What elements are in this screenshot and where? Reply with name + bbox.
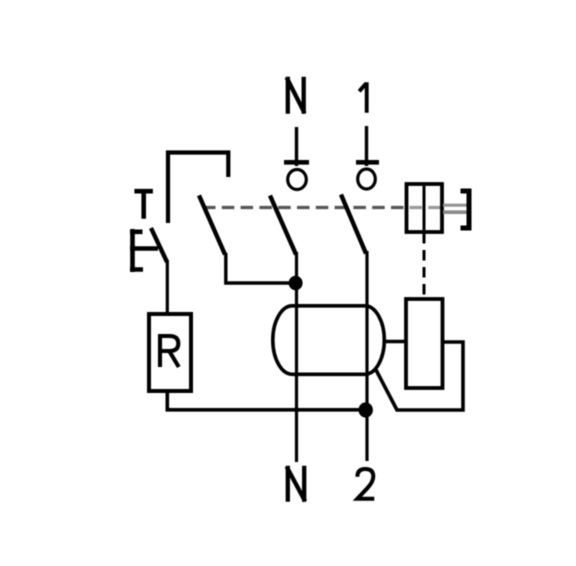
wire: test blade to resistor R <box>166 260 169 314</box>
manual handle <box>461 189 470 231</box>
wire: neutral conductor <box>295 252 298 462</box>
test switch blade <box>151 228 167 262</box>
fixed contact circle 1 <box>358 169 376 189</box>
terminal bar N <box>284 160 309 165</box>
label N (top neutral terminal) <box>287 77 305 114</box>
terminal bar 1 <box>356 160 379 165</box>
current transformer core (toroid) <box>273 306 385 375</box>
wire: secondary tap diagonal from core to bottom rail <box>375 368 398 411</box>
wire: test pole blade down and right to neutral conductor <box>226 253 296 283</box>
switch blade (line pole) <box>341 195 366 254</box>
dashed mechanical linkage line <box>203 206 406 209</box>
wire: lead from 1 label to terminal <box>365 126 368 166</box>
junction dot (line / bottom rail) <box>359 402 373 417</box>
label R <box>160 336 179 367</box>
label 1 (top line terminal) <box>359 82 367 112</box>
junction dot (neutral / test tap) <box>289 276 303 291</box>
fixed contact circle N <box>288 170 307 190</box>
trip coil <box>406 299 443 388</box>
dashed trip linkage to coil <box>423 233 426 296</box>
mechanical rod (double line) to handle <box>443 204 467 207</box>
wire: bracket from test contact up and over (fixed contact of test switch) <box>168 153 228 224</box>
label T (test button) <box>134 191 153 219</box>
wire: trip coil right side return <box>396 342 463 410</box>
resistor R <box>149 314 191 391</box>
test button actuator <box>130 229 158 272</box>
wire: line conductor <box>365 251 368 461</box>
wire: lead from N label to terminal <box>295 127 298 166</box>
mechanism box <box>407 184 443 232</box>
label 2 (bottom) <box>357 469 374 499</box>
label N (bottom) <box>287 466 306 502</box>
wire: resistor bottom to bottom rail <box>167 391 366 410</box>
mechanism box internal vertical line <box>423 186 426 230</box>
switch blade (neutral pole) <box>270 196 296 255</box>
wire: core secondary to trip coil <box>385 340 406 344</box>
switch blade (test pole, fed from bracket) <box>199 195 225 254</box>
